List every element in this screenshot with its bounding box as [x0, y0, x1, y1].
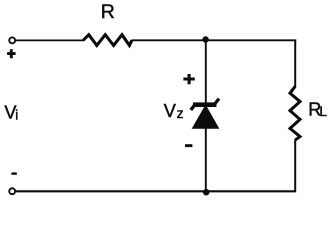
- wire top (R to node A): [132, 39, 206, 41]
- zener diode Vz: cathode bar with bent tips: [191, 99, 219, 110]
- svg-text:V: V: [164, 101, 177, 121]
- wire top-left (terminal to R): [15, 39, 84, 41]
- terminal bottom-left (- input): [9, 188, 15, 194]
- wire bottom (terminal to node B to corner): [15, 190, 296, 192]
- resistor RL: [290, 86, 300, 140]
- svg-text:i: i: [15, 108, 18, 123]
- svg-text:z: z: [177, 105, 184, 121]
- plus sign zener: [183, 74, 194, 84]
- wire right lower (RL to bottom corner): [294, 140, 296, 193]
- wire center lower (zener anode to node B): [205, 128, 207, 193]
- svg-text:R: R: [101, 1, 115, 23]
- node B (bottom junction dot): [203, 189, 210, 196]
- node A (top junction dot): [202, 36, 208, 42]
- minus sign input: [11, 172, 16, 174]
- label RL: [308, 100, 327, 120]
- plus sign input: [7, 49, 16, 58]
- terminal top-left (+ input): [9, 37, 15, 43]
- label Vz: [164, 101, 184, 121]
- minus sign zener: [185, 144, 192, 147]
- svg-text:L: L: [319, 104, 327, 119]
- resistor R: [83, 35, 132, 46]
- wire top-right (node A to corner): [206, 39, 297, 41]
- wire center upper (node A to zener cathode): [205, 40, 207, 103]
- wire right upper (corner down to RL): [294, 39, 296, 87]
- label R: [101, 1, 115, 23]
- label Vi: [4, 102, 18, 122]
- zener diode Vz: anode triangle: [192, 105, 220, 129]
